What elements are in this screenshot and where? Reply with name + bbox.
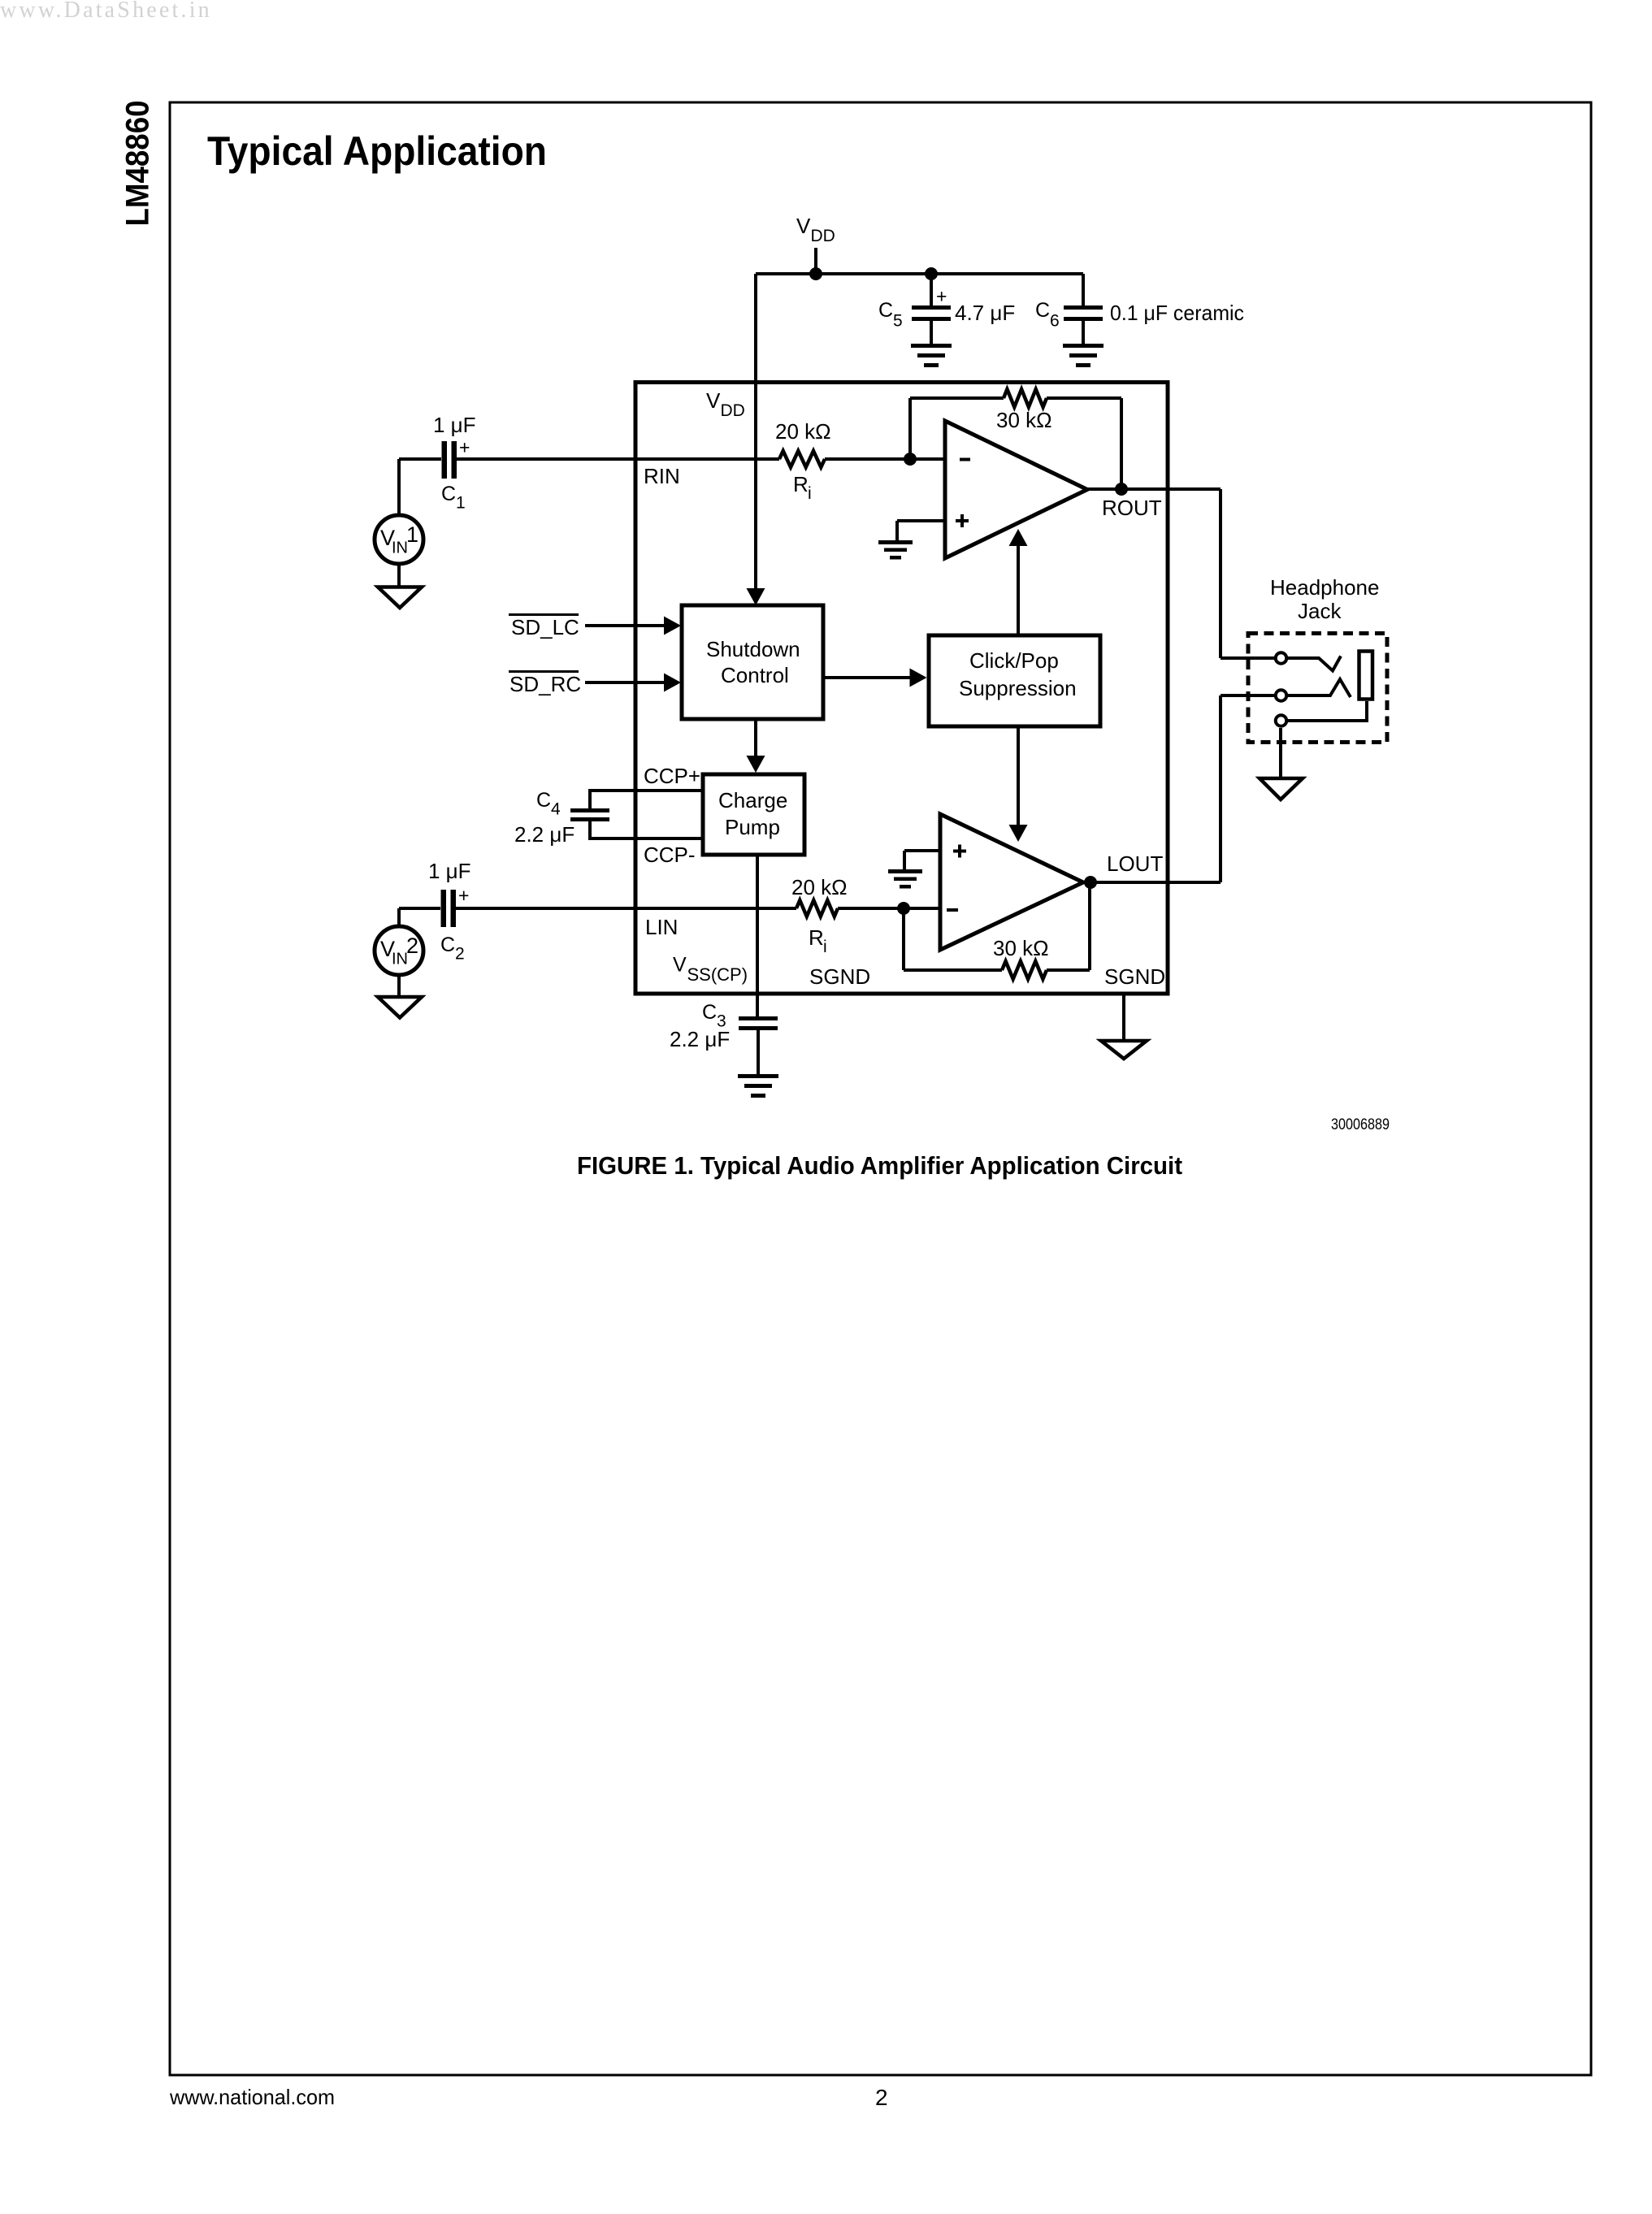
svg-text:6: 6 — [1050, 312, 1060, 331]
svg-text:Click/Pop: Click/Pop — [969, 648, 1059, 673]
svg-text:LOUT: LOUT — [1107, 851, 1163, 876]
svg-text:5: 5 — [893, 312, 903, 331]
svg-text:+: + — [458, 885, 469, 906]
svg-text:CCP-: CCP- — [644, 843, 696, 867]
svg-text:www.national.com: www.national.com — [169, 2085, 335, 2109]
svg-text:SGND: SGND — [809, 964, 870, 989]
svg-text:R: R — [809, 925, 824, 950]
svg-text:Typical Application: Typical Application — [207, 128, 547, 174]
svg-text:DD: DD — [811, 227, 835, 245]
svg-text:1 μF: 1 μF — [428, 859, 471, 883]
svg-text:Suppression: Suppression — [959, 676, 1077, 700]
svg-text:1: 1 — [456, 494, 466, 513]
svg-text:SGND: SGND — [1104, 964, 1165, 989]
svg-text:IN: IN — [392, 539, 408, 557]
svg-text:Shutdown: Shutdown — [706, 637, 800, 661]
svg-text:LIN: LIN — [645, 915, 678, 939]
svg-text:DD: DD — [721, 401, 745, 420]
svg-text:2.2 μF: 2.2 μF — [514, 822, 575, 847]
svg-text:www.DataSheet.in: www.DataSheet.in — [0, 0, 212, 23]
svg-text:2: 2 — [875, 2085, 888, 2110]
svg-text:Charge: Charge — [718, 788, 787, 812]
svg-text:i: i — [808, 484, 812, 503]
svg-text:+: + — [459, 437, 470, 458]
svg-text:3: 3 — [717, 1012, 726, 1031]
svg-text:30 kΩ: 30 kΩ — [996, 408, 1052, 432]
svg-text:V: V — [706, 388, 721, 413]
svg-text:20 kΩ: 20 kΩ — [775, 419, 831, 444]
svg-text:2: 2 — [455, 945, 465, 964]
svg-text:1: 1 — [406, 522, 418, 547]
svg-text:i: i — [823, 938, 827, 956]
svg-text:4: 4 — [551, 800, 561, 819]
svg-text:+: + — [936, 286, 947, 307]
svg-text:1 μF: 1 μF — [433, 413, 476, 437]
svg-text:V: V — [796, 214, 811, 238]
svg-text:30006889: 30006889 — [1331, 1116, 1390, 1133]
svg-text:ROUT: ROUT — [1102, 496, 1162, 520]
svg-text:C: C — [702, 1001, 717, 1024]
svg-text:SD_LC: SD_LC — [511, 615, 579, 639]
svg-text:C: C — [441, 483, 456, 505]
svg-text:IN: IN — [392, 951, 408, 968]
svg-text:R: R — [793, 472, 809, 496]
svg-text:FIGURE 1. Typical Audio Amplif: FIGURE 1. Typical Audio Amplifier Applic… — [577, 1152, 1182, 1180]
svg-text:2.2 μF: 2.2 μF — [670, 1027, 730, 1051]
svg-text:C: C — [536, 789, 551, 812]
svg-text:Control: Control — [721, 663, 789, 687]
svg-text:Jack: Jack — [1298, 599, 1342, 623]
svg-text:20 kΩ: 20 kΩ — [791, 875, 848, 899]
svg-text:SD_RC: SD_RC — [509, 672, 581, 696]
svg-text:C: C — [878, 299, 893, 322]
svg-text:30 kΩ: 30 kΩ — [993, 936, 1049, 960]
svg-text:2: 2 — [406, 934, 418, 958]
svg-text:CCP+: CCP+ — [644, 764, 700, 788]
svg-text:4.7 μF: 4.7 μF — [955, 301, 1015, 325]
svg-text:RIN: RIN — [644, 464, 680, 488]
svg-text:Headphone: Headphone — [1270, 575, 1379, 600]
svg-text:SS(CP): SS(CP) — [687, 964, 748, 985]
svg-text:V: V — [673, 954, 687, 977]
svg-text:C: C — [440, 934, 455, 956]
svg-text:Pump: Pump — [725, 815, 780, 839]
svg-text:LM48860: LM48860 — [120, 101, 156, 227]
svg-text:0.1 μF ceramic: 0.1 μF ceramic — [1110, 301, 1244, 325]
svg-text:C: C — [1035, 299, 1050, 322]
